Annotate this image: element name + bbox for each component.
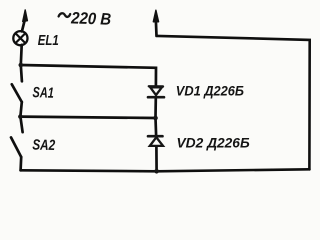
svg-text:VD2 Д226Б: VD2 Д226Б (177, 135, 251, 150)
svg-text:220 В: 220 В (70, 8, 112, 28)
svg-text:EL1: EL1 (38, 33, 59, 49)
svg-text:VD1 Д226Б: VD1 Д226Б (176, 83, 245, 98)
svg-text:SA2: SA2 (32, 138, 56, 155)
svg-text:SA1: SA1 (32, 85, 54, 102)
